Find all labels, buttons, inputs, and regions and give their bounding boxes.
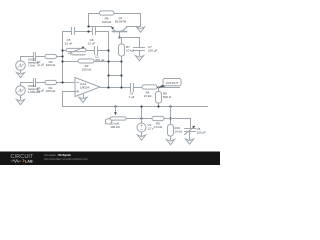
svg-text:VCFOUT: VCFOUT bbox=[166, 81, 179, 85]
capacitor C2 bbox=[34, 53, 36, 61]
svg-text:12 V: 12 V bbox=[148, 127, 154, 131]
label R10 bbox=[175, 126, 184, 134]
ground under C7 bbox=[135, 56, 143, 61]
label C4 bbox=[128, 92, 134, 100]
wire top feedback from node to R6 bbox=[89, 14, 100, 27]
resistor R2 bbox=[45, 54, 57, 58]
label R3 bbox=[82, 64, 92, 72]
wire R5 to corner bbox=[165, 119, 191, 129]
svg-text:100 kΩ: 100 kΩ bbox=[46, 89, 56, 93]
ground under collector bbox=[136, 27, 144, 32]
flag VCFOUT bbox=[159, 79, 182, 88]
wire OSC2 to C3 bbox=[21, 82, 34, 84]
svg-text:100 kΩ: 100 kΩ bbox=[102, 20, 112, 24]
svg-text:470 µF: 470 µF bbox=[95, 58, 105, 62]
svg-text:100 kΩ: 100 kΩ bbox=[46, 63, 56, 67]
label V3 bbox=[148, 123, 154, 131]
wire base to C7 bbox=[120, 38, 140, 48]
source OSC2 bbox=[16, 83, 26, 100]
label Q1 bbox=[115, 16, 126, 24]
ground under R10 bbox=[166, 140, 174, 145]
wire C2 to R2 bbox=[36, 56, 46, 58]
wire collector row bbox=[127, 26, 141, 28]
footer logo zigzag bbox=[11, 160, 21, 163]
node dot V3 top bbox=[140, 117, 142, 119]
resistor R7 bbox=[119, 44, 125, 56]
wire R1 to op-amp minus bbox=[57, 82, 76, 84]
node dot R8 bottom bbox=[157, 105, 159, 107]
capacitor C3 bbox=[34, 79, 36, 87]
right vertical VCF tap bbox=[170, 107, 172, 125]
node dot emitter tap bbox=[87, 25, 89, 27]
bottom bias bus bbox=[63, 106, 208, 108]
wire C3 to R1 bbox=[36, 82, 46, 84]
label R5 bbox=[154, 122, 163, 130]
footer bar bbox=[0, 152, 220, 166]
wire R6 to collector drop bbox=[115, 14, 141, 27]
svg-text:1 µF: 1 µF bbox=[128, 95, 134, 99]
svg-text:LAB: LAB bbox=[25, 160, 33, 164]
svg-text:100 pF: 100 pF bbox=[197, 131, 207, 135]
ladder rung wire bbox=[109, 75, 122, 77]
node dot rung right bbox=[120, 74, 122, 76]
svg-text:22 nF: 22 nF bbox=[65, 42, 73, 46]
wire OSC1 to C2 bbox=[21, 56, 34, 58]
node dot output-ladder1 bbox=[107, 86, 109, 88]
top rail right segment bbox=[96, 31, 109, 33]
label C6 bbox=[88, 38, 96, 46]
node dot C1-right bbox=[107, 49, 109, 51]
resistor R3 bbox=[78, 59, 94, 63]
resistor R6 bbox=[100, 11, 115, 15]
label C8 bbox=[197, 127, 207, 135]
label C2 bbox=[36, 59, 44, 67]
wire plus input vertical bbox=[62, 92, 64, 107]
wire R7 bottom to output row bbox=[121, 57, 123, 88]
label R1 bbox=[46, 86, 56, 93]
node dot pot-left bbox=[61, 49, 63, 51]
ground under C8 bbox=[185, 139, 193, 144]
ground under OSC2 bbox=[16, 100, 24, 105]
left feedback vertical bbox=[62, 32, 64, 83]
transistor Q1 bbox=[111, 27, 126, 38]
node dot R3 row left bbox=[61, 60, 63, 62]
wire pot to V3 node bbox=[127, 118, 153, 120]
wire C4 to R4 bbox=[134, 87, 143, 89]
wire pot to C1 bbox=[87, 50, 95, 52]
op-amp OA1 bbox=[75, 78, 100, 98]
label OA1 bbox=[80, 82, 90, 90]
svg-text:100 kΩ: 100 kΩ bbox=[82, 68, 92, 72]
label OSC2 bbox=[28, 84, 41, 94]
node dot rail-R6 bbox=[87, 30, 89, 32]
svg-text:10 kΩ: 10 kΩ bbox=[154, 125, 163, 129]
ground under V3 bbox=[137, 135, 145, 140]
wire R4 to VCFOUT stub bbox=[158, 87, 180, 89]
footer logo lightning bbox=[23, 159, 24, 162]
node dot rung left bbox=[107, 74, 109, 76]
resistor R10 bbox=[168, 125, 174, 140]
wire op-amp output bbox=[101, 87, 131, 89]
node dot row B bbox=[169, 117, 171, 119]
label C3 bbox=[36, 85, 44, 93]
label R2 bbox=[46, 60, 56, 67]
node dot base bbox=[118, 36, 120, 38]
svg-text:LM324: LM324 bbox=[80, 86, 90, 90]
potentiometer Cutoff bbox=[110, 117, 126, 120]
label C5 bbox=[65, 38, 73, 46]
top rail left segment bbox=[63, 31, 72, 33]
label Cutoff bbox=[110, 122, 120, 130]
wire base to R7 bbox=[121, 38, 123, 45]
resistor R1 bbox=[45, 80, 57, 84]
label C1 bbox=[95, 55, 105, 63]
node dot R3 row right bbox=[120, 60, 122, 62]
ground under op-amp bbox=[79, 97, 87, 102]
wire node to R3 bbox=[63, 61, 79, 63]
svg-text:100 kΩ: 100 kΩ bbox=[110, 125, 120, 129]
svg-text:22 nF: 22 nF bbox=[88, 42, 96, 46]
svg-text:500 Ω: 500 Ω bbox=[163, 95, 172, 99]
node dot output-ladder2 bbox=[120, 86, 122, 88]
svg-text:Resonance: Resonance bbox=[70, 52, 86, 56]
source V3 bbox=[137, 105, 146, 135]
label R8 bbox=[163, 92, 172, 100]
label R7 bbox=[126, 45, 135, 53]
resistor R8 bbox=[156, 88, 162, 107]
node dot wiper top bbox=[114, 105, 116, 107]
svg-text:100 µF: 100 µF bbox=[148, 49, 158, 53]
top rail mid segment bbox=[75, 31, 93, 33]
node dot R8 top bbox=[157, 86, 159, 88]
node dot R3 row mid bbox=[107, 60, 109, 62]
label R6 bbox=[102, 17, 112, 25]
svg-text:Simulator / PicSynth: Simulator / PicSynth bbox=[44, 153, 71, 157]
resistor R5 bbox=[152, 116, 164, 120]
node dot R2 bbox=[61, 55, 63, 57]
ground under OSC1 bbox=[16, 73, 24, 78]
svg-text:BC547B: BC547B bbox=[115, 20, 126, 24]
wire C1 to ladder bbox=[98, 50, 109, 52]
right ladder vertical bbox=[108, 32, 110, 88]
label OSC1 bbox=[28, 58, 39, 68]
label C7 bbox=[148, 45, 158, 53]
node dot summing bbox=[61, 81, 63, 83]
svg-text:10 kΩ: 10 kΩ bbox=[126, 49, 135, 53]
node dot bus tap bbox=[169, 105, 171, 107]
wire pot row left bbox=[63, 50, 67, 52]
wire R3 to ladder bbox=[95, 61, 122, 63]
capacitor C4 bbox=[131, 84, 134, 92]
pot wiper Cutoff bbox=[114, 107, 117, 116]
capacitor C6 bbox=[93, 28, 96, 35]
wire emitter row bbox=[89, 26, 112, 28]
wire plus input bbox=[63, 91, 76, 93]
potentiometer Resonance bbox=[66, 47, 86, 54]
capacitor C1 bbox=[95, 47, 98, 55]
source OSC1 bbox=[16, 57, 26, 73]
resistor R4 bbox=[142, 85, 157, 89]
svg-text:10 kΩ: 10 kΩ bbox=[144, 94, 153, 98]
capacitor C8 trimmer bbox=[185, 126, 196, 140]
wire R2 to node bbox=[57, 56, 63, 58]
capacitor C7 bbox=[134, 48, 145, 56]
capacitor C5 bbox=[72, 28, 75, 35]
flag cutoff node bbox=[106, 118, 113, 124]
label R4 bbox=[144, 91, 153, 99]
svg-text:10 kΩ: 10 kΩ bbox=[175, 130, 184, 134]
